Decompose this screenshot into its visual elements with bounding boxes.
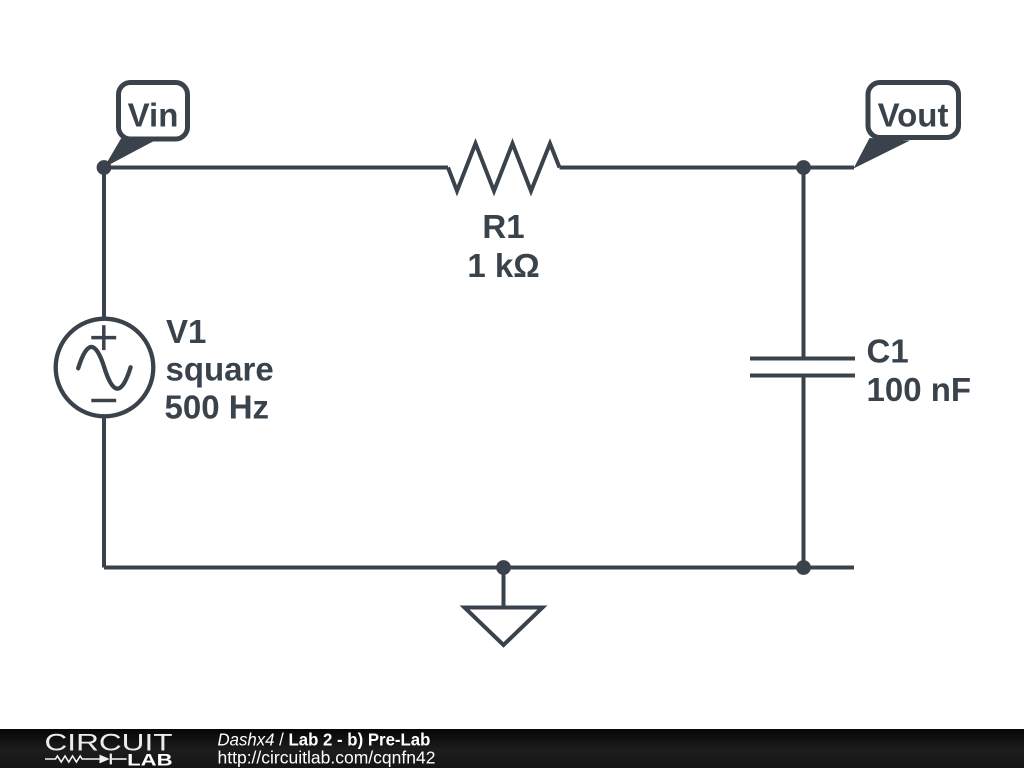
- label V1 waveform type: [166, 351, 274, 388]
- label net Vin: [128, 96, 179, 133]
- label R1 value 1 kOhm: [467, 247, 539, 284]
- svg-text:Vin: Vin: [128, 96, 179, 133]
- label C1 designator: [867, 332, 909, 369]
- wire: top net from node Vin to R1 left terminal: [104, 166, 448, 170]
- svg-text:Dashx4 / Lab 2 - b) Pre-Lab: Dashx4 / Lab 2 - b) Pre-Lab: [218, 729, 431, 750]
- svg-text:square: square: [166, 351, 274, 388]
- svg-text:LAB: LAB: [127, 752, 172, 768]
- svg-text:C1: C1: [867, 332, 909, 369]
- node: junction dot at C1 bottom on bottom net: [796, 560, 811, 575]
- CircuitLab logo wordmark CIRCUIT: [45, 730, 173, 757]
- svg-text:V1: V1: [166, 313, 206, 350]
- wire: left branch from node Vin down to V1 positive terminal: [102, 168, 106, 322]
- wire: V1 negative terminal down to bottom net: [102, 417, 106, 568]
- ground: [465, 568, 543, 646]
- svg-text:1 kΩ: 1 kΩ: [467, 247, 539, 284]
- CircuitLab logo wordmark LAB: [127, 752, 172, 768]
- wire: C1 bottom plate down to bottom net: [802, 376, 806, 568]
- footer url: [218, 747, 436, 767]
- svg-text:Vout: Vout: [878, 97, 949, 134]
- footer bar: [0, 729, 1024, 768]
- capacitor C1: [750, 359, 855, 376]
- wire: Vout node down to C1 top plate: [802, 168, 806, 359]
- resistor R1: [448, 144, 560, 192]
- svg-text:http://circuitlab.com/cqnfn42: http://circuitlab.com/cqnfn42: [218, 747, 436, 767]
- wire: bottom net (ground rail): [104, 566, 854, 570]
- footer schematic title: [218, 729, 431, 750]
- node: junction dot at Vout node: [796, 160, 811, 175]
- label net Vout: [878, 97, 949, 134]
- net flag Vin: [104, 83, 188, 168]
- wire: R1 right terminal to Vout flag attach point: [560, 166, 855, 170]
- svg-text:R1: R1: [482, 208, 524, 245]
- label V1 designator: [166, 313, 206, 350]
- CircuitLab logo schematic line with resistor and diode: [45, 754, 127, 765]
- label R1 designator: [482, 208, 524, 245]
- node: junction dot at ground tap on bottom net: [496, 560, 511, 575]
- node: junction dot at Vin node: [97, 160, 112, 175]
- svg-text:500 Hz: 500 Hz: [165, 388, 270, 425]
- label C1 value 100 nF: [867, 371, 972, 408]
- svg-text:100 nF: 100 nF: [867, 371, 972, 408]
- net flag Vout: [854, 83, 959, 169]
- label V1 frequency: [165, 388, 270, 425]
- voltage source V1: [56, 319, 154, 417]
